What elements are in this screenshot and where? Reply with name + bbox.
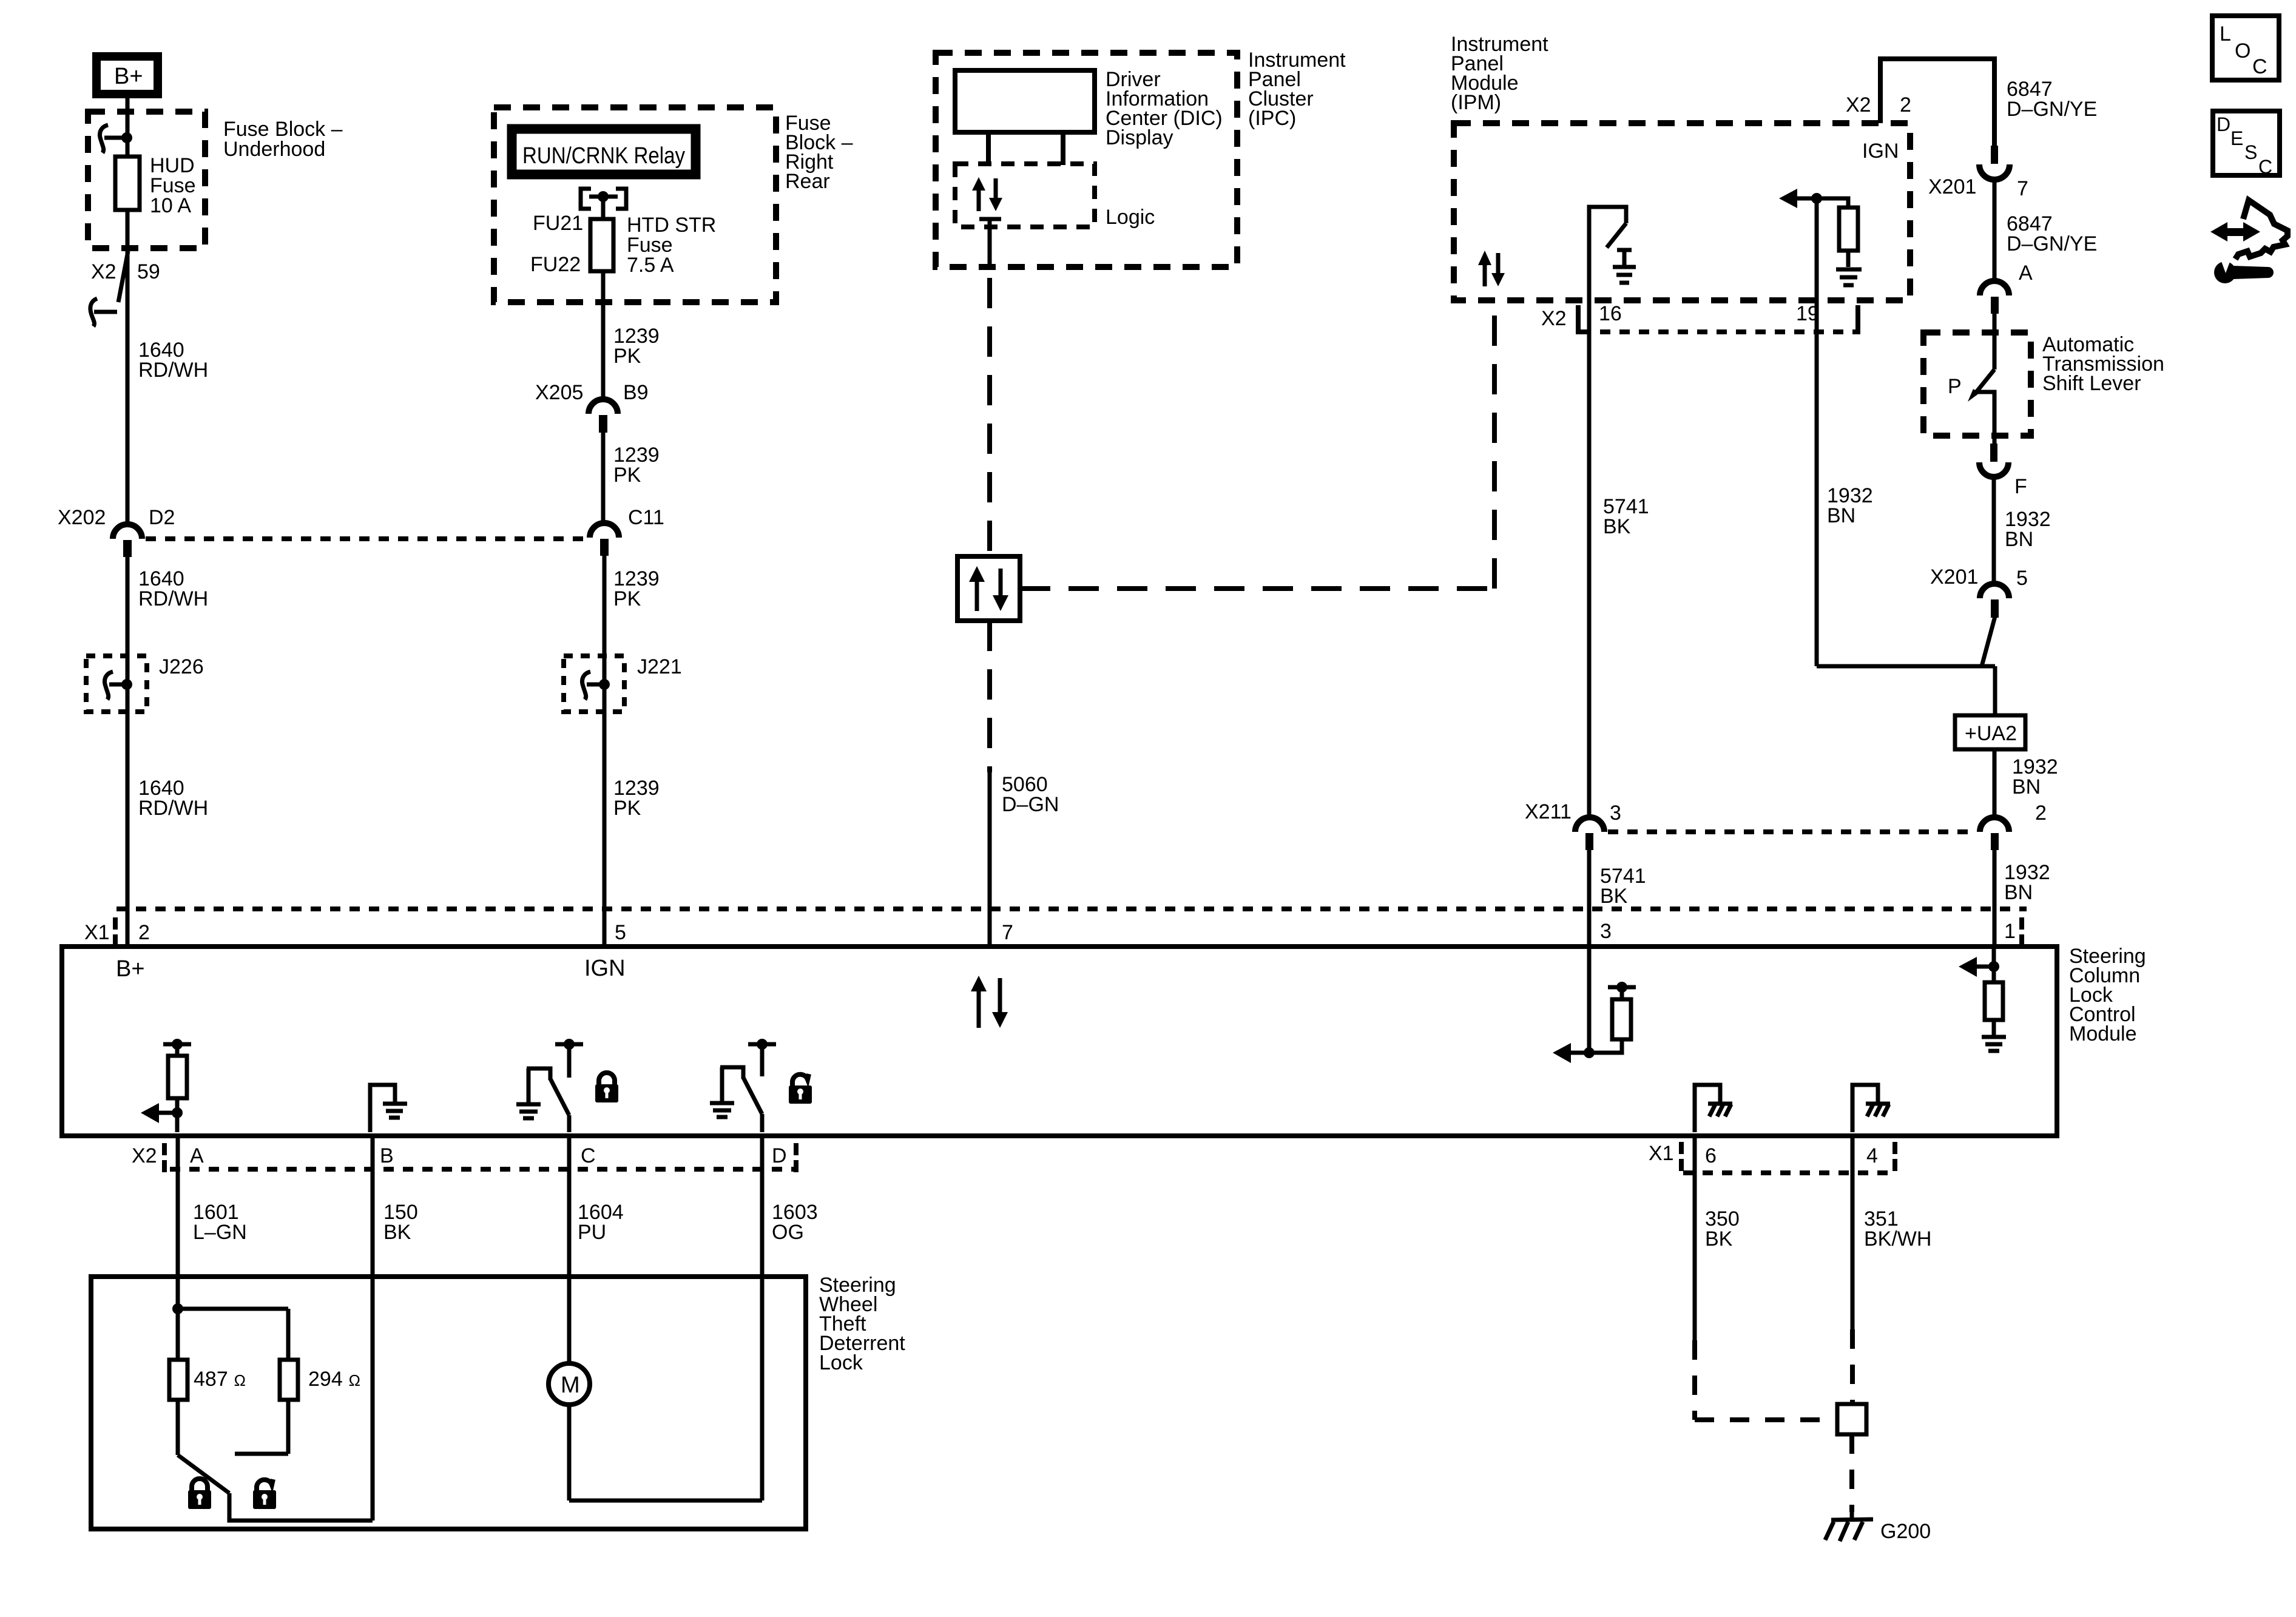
svg-text:B+: B+ <box>116 956 145 982</box>
svg-text:Module: Module <box>2069 1022 2137 1045</box>
serial data gateway box <box>957 556 1020 621</box>
svg-text:487 Ω: 487 Ω <box>194 1368 246 1391</box>
svg-text:BN: BN <box>2005 528 2033 551</box>
svg-text:X2: X2 <box>132 1144 157 1167</box>
ground G200 <box>1825 1512 1873 1541</box>
svg-text:7: 7 <box>2017 177 2028 200</box>
wire B+ to fuse <box>126 94 130 157</box>
wire pin 4 dashed to splice <box>1850 1329 1855 1404</box>
label 5741 BK upper <box>1603 495 1649 538</box>
fuse F1 HUD 10A <box>115 157 140 210</box>
connector A (shift lever) <box>1980 281 2009 314</box>
svg-text:X2: X2 <box>1541 307 1567 330</box>
connector row X2 16 / 19 <box>1576 305 1860 334</box>
svg-text:294 Ω: 294 Ω <box>308 1368 360 1391</box>
svg-text:X2: X2 <box>91 260 116 283</box>
wire IPM pin 19 down <box>1815 198 1819 666</box>
svg-text:IGN: IGN <box>1862 140 1899 163</box>
svg-text:X202: X202 <box>58 506 106 529</box>
connector X205 pin B9 <box>589 399 618 433</box>
wire pin C down <box>567 1136 572 1363</box>
closed padlock icon (lock position) <box>188 1479 211 1509</box>
svg-text:X201: X201 <box>1930 565 1978 589</box>
wire pin A down <box>176 1136 180 1309</box>
automatic transmission shift lever box <box>1923 333 2031 436</box>
label wire 1239 PK <box>613 325 660 368</box>
internal lock switch pin D <box>710 1039 776 1132</box>
label X1 with bracket <box>1649 1142 1684 1171</box>
svg-text:C: C <box>2252 55 2267 78</box>
serial data wire (dashed) IPC to gateway box <box>987 278 992 556</box>
label Fuse Block - Underhood <box>223 118 343 161</box>
label wire 1603 OG <box>772 1201 818 1244</box>
svg-text:BK: BK <box>1705 1227 1733 1251</box>
DESC box <box>2213 111 2280 178</box>
wire IGN feed top <box>1880 59 1994 147</box>
svg-text:BK: BK <box>383 1221 411 1244</box>
fuse FU21/FU22 HTD STR 7.5A <box>590 219 613 271</box>
serial data arrows in logic box <box>972 177 1002 211</box>
wire fuse to X202 <box>126 210 130 525</box>
lock position switch blade <box>178 1455 373 1521</box>
svg-text:6: 6 <box>1705 1144 1717 1167</box>
svg-text:M: M <box>561 1372 580 1398</box>
wire X211-2 to module pin 1 <box>1993 850 1997 944</box>
wire C11 to J221 <box>603 556 607 944</box>
svg-text:A: A <box>2019 262 2033 285</box>
label wire 351 BK/WH <box>1864 1207 1931 1251</box>
label Automatic Transmission Shift Lever <box>2042 333 2164 395</box>
connector line X1 bottom <box>1683 1142 1897 1173</box>
connector line X2 <box>170 1167 794 1172</box>
svg-text:3: 3 <box>1600 920 1612 943</box>
label wire 1932 BN <box>2004 861 2050 904</box>
wire X202 to J226 <box>126 557 130 944</box>
svg-text:L–GN: L–GN <box>193 1221 247 1244</box>
svg-text:7.5 A: 7.5 A <box>627 254 674 277</box>
svg-text:RD/WH: RD/WH <box>138 797 208 820</box>
wire pin B down <box>371 1136 375 1521</box>
node +UA2 <box>1955 715 2025 749</box>
svg-text:4: 4 <box>1866 1144 1878 1167</box>
svg-text:B9: B9 <box>623 381 649 404</box>
connector line X202 <box>146 536 587 541</box>
label wire 350 BK <box>1705 1207 1740 1251</box>
svg-text:A: A <box>190 1144 204 1167</box>
label pin D with bracket <box>772 1143 799 1172</box>
svg-text:S: S <box>2244 141 2257 163</box>
svg-text:PK: PK <box>613 345 641 368</box>
label wire 150 BK <box>383 1201 418 1244</box>
label X201 7 <box>1928 175 2028 200</box>
label 1932 BN (IPM pin19 wire) <box>1827 484 1873 527</box>
fuse block underhood box <box>88 112 205 248</box>
label Steering Wheel Theft Deterrent Lock <box>819 1274 905 1374</box>
internal chassis ground pin 6 <box>1695 1085 1732 1132</box>
svg-text:1: 1 <box>2004 920 2016 943</box>
resistor in IPM (pin 19 pull-up) <box>1779 189 1858 267</box>
steering column lock control module box <box>62 947 2057 1136</box>
wire splice to G200 <box>1849 1434 1854 1512</box>
wire X211-3 to module pin 3 <box>1587 850 1592 944</box>
wire logic to IPC border <box>979 219 1001 268</box>
svg-text:F: F <box>2014 475 2027 498</box>
label X2 with bracket <box>132 1143 167 1172</box>
label Instrument Panel Module (IPM) <box>1451 33 1548 114</box>
wire F to X201-5 <box>1992 477 1996 584</box>
diagnostic tool icon (arrow, outline, wrench) <box>2210 200 2288 283</box>
svg-text:C: C <box>581 1144 596 1167</box>
wire pin 6 down <box>1693 1136 1697 1340</box>
svg-text:BK: BK <box>1600 885 1628 908</box>
svg-text:IGN: IGN <box>584 956 626 981</box>
svg-text:10 A: 10 A <box>150 194 191 217</box>
wire motor loop <box>569 1405 762 1501</box>
label X205 B9 <box>535 381 649 404</box>
svg-text:59: 59 <box>137 260 160 283</box>
inline splice block <box>1837 1404 1866 1434</box>
label wire 1601 L-GN <box>193 1201 247 1244</box>
svg-text:7: 7 <box>1002 921 1013 944</box>
svg-text:5: 5 <box>2016 567 2028 590</box>
svg-text:D–GN/YE: D–GN/YE <box>2007 98 2097 121</box>
svg-text:BK: BK <box>1603 515 1631 538</box>
fuse block terminal clip <box>100 125 133 153</box>
svg-text:C: C <box>2258 156 2272 178</box>
wire 5060 to module <box>988 772 992 944</box>
svg-text:2: 2 <box>1900 93 1911 116</box>
svg-text:Underhood: Underhood <box>223 138 325 161</box>
label Fuse Block - Right Rear <box>785 112 853 193</box>
svg-text:Display: Display <box>1106 126 1173 149</box>
wire DIC display to logic left <box>986 132 991 165</box>
label wire 1239 PK <box>613 444 660 487</box>
svg-text:PK: PK <box>613 797 641 820</box>
svg-text:(IPC): (IPC) <box>1248 107 1296 130</box>
open padlock icon <box>789 1074 812 1104</box>
park switch P <box>1968 370 1994 444</box>
connector line X1 <box>116 906 2027 911</box>
svg-text:OG: OG <box>772 1221 804 1244</box>
label wire 1640 RD/WH <box>138 567 208 610</box>
svg-text:16: 16 <box>1599 302 1622 325</box>
serial data arrows in IPM <box>1478 251 1505 286</box>
internal ground pin B <box>370 1085 407 1132</box>
svg-text:RD/WH: RD/WH <box>138 587 208 610</box>
svg-text:2: 2 <box>2035 802 2047 825</box>
svg-text:BN: BN <box>2012 775 2041 798</box>
label wire 1239 PK <box>613 567 660 610</box>
svg-text:D–GN/YE: D–GN/YE <box>2007 232 2097 255</box>
instrument panel cluster box <box>936 53 1237 267</box>
label X202 D2 <box>58 506 175 529</box>
label X2 59 <box>91 260 160 283</box>
label wire 6847 D-GN/YE lower <box>2007 212 2097 255</box>
svg-text:B+: B+ <box>114 64 143 89</box>
wire pin 6 dashed to splice <box>1695 1340 1835 1420</box>
svg-text:Rear: Rear <box>785 170 830 193</box>
fuse block right rear box <box>494 107 776 302</box>
wire +UA2 to X211-2 <box>1993 749 1997 819</box>
label wire 1640 RD/WH <box>138 339 208 382</box>
label pin 1 with bracket <box>2004 917 2024 947</box>
svg-text:+UA2: +UA2 <box>1965 722 2017 745</box>
motor M <box>549 1363 590 1405</box>
svg-text:5: 5 <box>615 921 626 944</box>
wire pin D down <box>760 1136 765 1501</box>
svg-text:PU: PU <box>578 1221 606 1244</box>
wire X201-7 to A <box>1993 179 1997 282</box>
label HUD Fuse 10 A <box>150 154 196 217</box>
connector F <box>1979 444 2008 477</box>
svg-text:J221: J221 <box>637 655 682 678</box>
label 5741 BK lower <box>1600 865 1646 908</box>
svg-text:PK: PK <box>613 587 641 610</box>
connector C11 <box>590 523 619 556</box>
serial data wire (dashed) gateway down <box>987 621 992 772</box>
label Instrument Panel Cluster (IPC) <box>1248 49 1346 130</box>
svg-text:P: P <box>1948 375 1962 398</box>
connector X201 pin 5 <box>1980 584 2009 618</box>
ground in IPM (pin19 resistor) <box>1836 269 1862 285</box>
svg-text:X1: X1 <box>1649 1142 1674 1165</box>
svg-text:RUN/CRNK Relay: RUN/CRNK Relay <box>522 143 685 169</box>
svg-text:3: 3 <box>1610 802 1621 825</box>
label wire 1932 BN <box>2012 755 2058 798</box>
svg-text:X2: X2 <box>1846 93 1871 116</box>
relay output terminal brackets <box>581 189 626 219</box>
label Driver Information Center (DIC) Display <box>1106 68 1223 149</box>
label wire 1604 PU <box>578 1201 624 1244</box>
svg-text:2: 2 <box>138 921 150 944</box>
svg-text:D: D <box>2217 113 2230 135</box>
svg-text:D–GN: D–GN <box>1002 793 1059 816</box>
connector X211 pin 2 <box>1980 817 2009 850</box>
svg-text:FU21: FU21 <box>533 212 583 235</box>
svg-text:Logic: Logic <box>1106 206 1155 229</box>
power symbol B+ <box>96 56 158 94</box>
LOC box <box>2212 16 2279 80</box>
node junction pin A <box>172 1303 288 1314</box>
svg-text:X201: X201 <box>1928 175 1976 198</box>
connector X211 pin 3 <box>1575 817 1604 850</box>
resistor 487 ohm <box>169 1309 187 1455</box>
label X211 3 <box>1525 800 1621 825</box>
DIC display block <box>955 70 1095 132</box>
svg-text:(IPM): (IPM) <box>1451 91 1501 114</box>
ground in IPM (pin16 switch) <box>1613 250 1636 283</box>
wire IPM pin 16 down <box>1587 300 1592 819</box>
svg-text:L: L <box>2220 22 2231 46</box>
internal driver pin A (T bar, resistor, arrow) <box>141 1039 191 1132</box>
internal chassis ground pin 4 <box>1852 1085 1890 1132</box>
wire DIC display to logic right <box>1061 132 1065 165</box>
steering wheel theft deterrent lock box <box>91 1277 806 1529</box>
svg-text:C11: C11 <box>628 506 664 529</box>
splice J221 <box>564 656 624 712</box>
wire X201-5 to junction <box>1817 616 1995 715</box>
svg-text:RD/WH: RD/WH <box>138 359 208 382</box>
logic box <box>955 164 1095 227</box>
svg-text:FU22: FU22 <box>530 253 581 276</box>
svg-text:BK/WH: BK/WH <box>1864 1227 1931 1251</box>
open padlock icon (unlock position) <box>253 1479 276 1509</box>
svg-text:G200: G200 <box>1880 1520 1931 1543</box>
internal lock switch pin C <box>516 1039 583 1132</box>
serial data arrows below pin 7 <box>971 976 1008 1028</box>
label wire 1640 RD/WH <box>138 777 208 820</box>
serial data arrows in gateway box <box>969 566 1008 611</box>
connector X202 pin D2 <box>113 524 142 557</box>
wire A to shift lever box <box>1993 314 1997 370</box>
svg-text:Shift Lever: Shift Lever <box>2042 372 2141 395</box>
svg-text:X1: X1 <box>84 921 110 944</box>
label wire 6847 D-GN/YE upper <box>2007 78 2097 121</box>
svg-text:B: B <box>380 1144 394 1167</box>
label X201 5 <box>1930 565 2028 590</box>
connector line X211 <box>1608 829 1976 834</box>
resistor 294 ohm <box>235 1309 298 1454</box>
svg-text:D2: D2 <box>149 506 175 529</box>
svg-text:Lock: Lock <box>819 1351 863 1374</box>
svg-text:BN: BN <box>1827 504 1855 527</box>
splice J226 <box>86 656 147 712</box>
svg-text:O: O <box>2235 39 2250 62</box>
serial data wire (dashed) gateway to IPM <box>1020 302 1494 589</box>
svg-text:J226: J226 <box>159 655 204 678</box>
label Steering Column Lock Control Module <box>2069 945 2146 1045</box>
wire fuse to X205 <box>601 271 606 400</box>
label wire 1239 PK <box>613 777 660 820</box>
svg-text:BN: BN <box>2004 881 2033 904</box>
label wire 5060 D-GN <box>1002 773 1059 816</box>
wire pin 4 down <box>1851 1136 1855 1329</box>
svg-text:E: E <box>2230 127 2243 149</box>
instrument panel module box <box>1454 123 1910 300</box>
internal driver pin 3 (T bar, resistor, arrow) <box>1553 949 1636 1063</box>
label X2 2 (IPM ignition pin) <box>1846 93 1911 116</box>
switch (IPM pin 16 output) <box>1589 207 1626 300</box>
svg-text:19: 19 <box>1796 302 1819 325</box>
label X1 with bracket <box>84 917 118 947</box>
svg-text:PK: PK <box>613 464 641 487</box>
label HTD STR Fuse 7.5 A <box>627 214 716 277</box>
connector X2 pin 59 terminal <box>90 251 128 326</box>
svg-text:X211: X211 <box>1525 800 1572 823</box>
svg-text:X205: X205 <box>535 381 583 404</box>
relay RUN/CRNK <box>511 128 697 175</box>
wire X205 to C11 <box>601 433 606 523</box>
label wire 1932 BN <box>2005 508 2051 551</box>
closed padlock icon <box>595 1073 618 1102</box>
connector X201 pin 7 <box>1979 146 2010 180</box>
internal driver pin 1 (arrow, resistor, ground) <box>1959 949 2006 1051</box>
svg-text:D: D <box>772 1144 787 1167</box>
